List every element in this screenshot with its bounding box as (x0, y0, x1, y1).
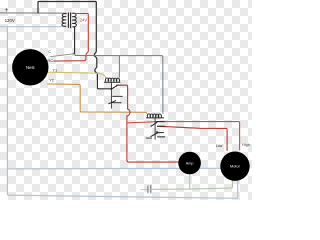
wire Y2 orange to relay K2 coil (48, 84, 147, 114)
wire 24V common rail (75, 54, 163, 113)
svg-text:24V: 24V (80, 18, 88, 23)
wire relay K2 output red to motor low (158, 126, 228, 150)
relay K1 coil underline (104, 81, 120, 83)
wire hot loop over top to fan circuit (38, 2, 111, 89)
thermostat Nest (12, 49, 48, 85)
svg-text:Nest: Nest (26, 65, 35, 70)
wire C lead to thermostat (51, 54, 74, 57)
svg-text:120V: 120V (5, 18, 15, 23)
svg-text:Motor: Motor (230, 164, 241, 169)
relay K2 stub (146, 137, 151, 139)
capacitor left stub (141, 188, 147, 190)
relay K2 contact tick 4 (158, 136, 165, 138)
relay K1 contact tick 1 (117, 84, 122, 86)
relay K2 contact tick 3 (158, 132, 164, 134)
relay K1 contact tick 2 (113, 95, 123, 97)
relay K2 pivot circle (156, 132, 158, 134)
wire neutral branch to motor left (7, 167, 220, 170)
amplifier Amp (178, 152, 201, 175)
wire capacitor branch to amp bottom (189, 174, 191, 189)
core (68, 13, 70, 28)
relay K2 contact tick 2 (158, 125, 165, 127)
relay K2 blade 2 (151, 133, 158, 137)
wire rail branch to relay K1 coil (118, 56, 120, 78)
motor M1 (220, 152, 249, 181)
relay K2 coil (147, 114, 161, 118)
svg-text:High: High (242, 143, 249, 147)
capacitor C1 plates (147, 186, 149, 193)
relay K1 armature bar (110, 82, 112, 108)
relay K2 contact tick 1 (157, 121, 164, 123)
primary coil (62, 13, 66, 26)
relay K1 blade 2 (109, 101, 116, 104)
svg-text:Y1: Y1 (52, 68, 57, 73)
wire 24V common C from transformer (73, 28, 74, 54)
wire 120V hot line (0, 12, 66, 15)
relay K1 blade 1 (111, 85, 117, 89)
svg-text:Low: Low (216, 144, 223, 148)
wire 24V hot R to RC (54, 13, 89, 61)
wire relay K1 output red to Amp (121, 85, 179, 162)
relay K2 coil underline (147, 117, 164, 119)
svg-text:C: C (48, 49, 51, 54)
wire capacitor to motor bottom (151, 181, 232, 190)
svg-text:Y2: Y2 (49, 77, 54, 82)
svg-text:RC: RC (47, 58, 53, 63)
relay K2 blade 1 (151, 122, 157, 126)
relay K2 armature bar (154, 118, 156, 139)
wire neutral down left side (7, 27, 237, 199)
relay K1 junction node (110, 88, 112, 90)
wire Y1 yellow to relay K1 coil (48, 72, 106, 78)
svg-text:Amp: Amp (186, 161, 194, 165)
transformer T1 (62, 13, 77, 28)
relay K1 contact tick 3 (113, 102, 121, 104)
wire red branch to motor high (127, 122, 240, 150)
secondary coil (72, 13, 76, 28)
polarity + mark (5, 8, 8, 11)
background checkerboard (0, 0, 252, 200)
wire 120V neutral (0, 25, 66, 28)
relay K1 coil (105, 78, 119, 82)
